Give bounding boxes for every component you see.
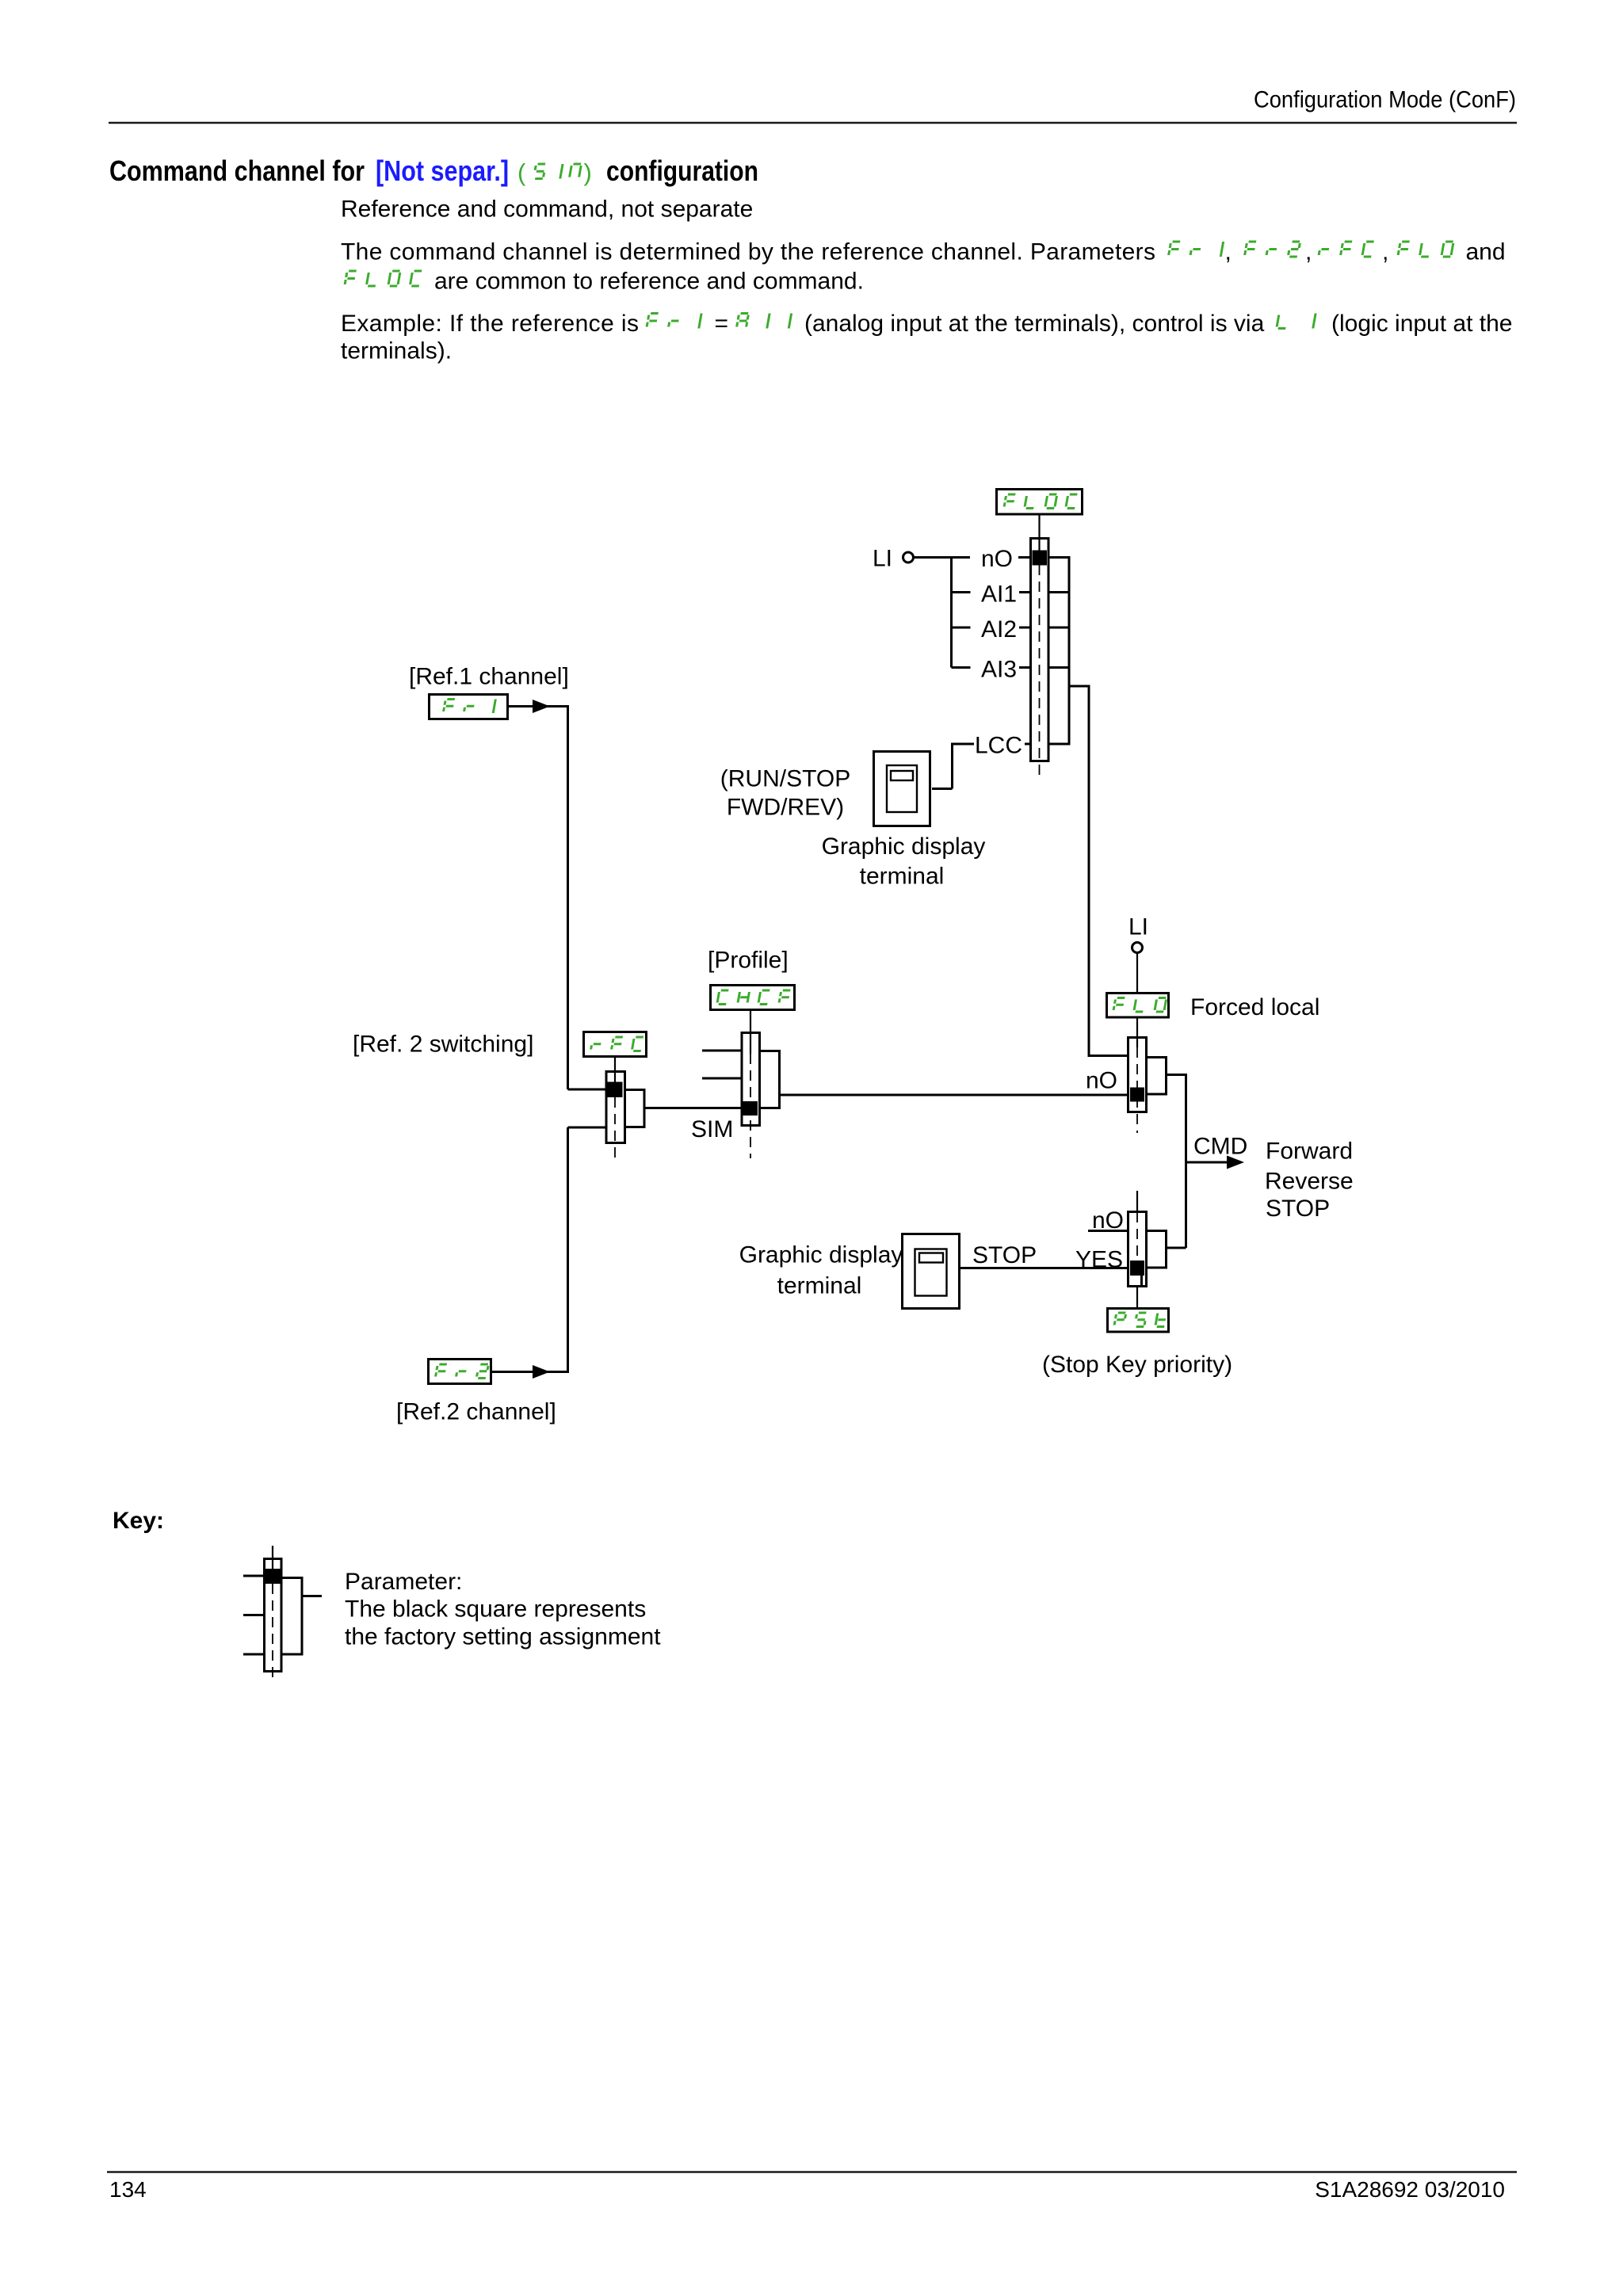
svg-text:Reference and command, not sep: Reference and command, not separate — [341, 196, 753, 223]
wire LCC from terminal — [953, 743, 975, 746]
svg-text:configuration: configuration — [606, 154, 758, 187]
switch rFC dashed axis — [614, 1097, 616, 1161]
parameter box FLOC — [997, 490, 1083, 515]
svg-text:(RUN/STOP: (RUN/STOP — [720, 766, 850, 792]
svg-text:S1A28692 03/2010: S1A28692 03/2010 — [1315, 2177, 1505, 2202]
svg-text:The command channel is determi: The command channel is determined by the… — [341, 239, 1155, 265]
wire Fr2 output with arrow — [491, 1371, 568, 1373]
LI terminal circle — [903, 552, 914, 563]
switch CHCF input stub 2 — [702, 1077, 743, 1080]
connector LCC to selector — [1025, 743, 1030, 746]
svg-text:,: , — [1225, 239, 1232, 265]
switch rFC body — [606, 1072, 625, 1143]
graphic display terminal 1 outer — [874, 752, 930, 826]
parameter box FLO — [1107, 994, 1169, 1018]
wire Fr1 down to rFC — [567, 705, 569, 1089]
parameter box Fr1 — [430, 695, 508, 719]
switch CHCF body — [742, 1033, 760, 1126]
parameter box rFC — [584, 1032, 647, 1057]
inline code Fr1 (example) — [647, 314, 701, 329]
wire FLO box to switch — [1136, 1017, 1138, 1047]
switch FLO dashed axis — [1136, 1047, 1138, 1133]
wire FLOC box to selector — [1038, 515, 1040, 552]
inline code AI1 — [736, 314, 791, 329]
terminal 2 screen — [919, 1253, 943, 1263]
key symbol axis top — [272, 1546, 273, 1570]
PSt nO input stub — [1088, 1230, 1128, 1232]
svg-text:Reverse: Reverse — [1265, 1169, 1354, 1195]
inline code LI — [1277, 314, 1316, 329]
wire CHCF box to switch — [750, 1009, 751, 1054]
switch PSt dashed axis — [1136, 1212, 1138, 1260]
parameter box PSt — [1108, 1309, 1169, 1333]
ladder rung AI2 — [1048, 627, 1069, 629]
stub AI3 — [952, 666, 971, 669]
svg-text:=: = — [715, 311, 729, 337]
terminal 1 inner body — [887, 765, 917, 812]
terminal 2 inner body — [915, 1249, 947, 1296]
stub AI1 — [952, 591, 971, 593]
switch CHCF output tab — [760, 1051, 780, 1108]
svg-text:Command channel for: Command channel for — [109, 154, 365, 187]
ladder rung AI3 — [1048, 666, 1069, 669]
switch CHCF dashed axis — [750, 1054, 751, 1158]
svg-text:AI3: AI3 — [981, 657, 1017, 683]
svg-text:[Ref.1 channel]: [Ref.1 channel] — [409, 664, 569, 690]
svg-text:LI: LI — [1128, 914, 1148, 940]
wire rFC box to switch — [614, 1057, 616, 1083]
selector FLOC dashed axis — [1039, 565, 1041, 779]
svg-text:and: and — [1466, 239, 1506, 265]
switch rFC factory square — [608, 1082, 623, 1098]
inline code FLO — [1398, 242, 1453, 257]
CMD output arrow — [1186, 1161, 1231, 1164]
svg-text:STOP: STOP — [972, 1242, 1037, 1268]
svg-text:Graphic display: Graphic display — [739, 1242, 903, 1268]
graphic display terminal 2 outer — [903, 1234, 960, 1309]
wire LI to FLO box — [1136, 953, 1138, 994]
svg-text:AI2: AI2 — [981, 616, 1017, 643]
wire into PSt output tab — [1167, 1247, 1186, 1249]
title 7-seg code SIM — [533, 164, 581, 179]
svg-text:): ) — [584, 158, 592, 186]
wire LI to nO — [915, 556, 971, 559]
wire Fr2 up to rFC — [567, 1127, 569, 1373]
switch FLO body — [1128, 1038, 1147, 1112]
key symbol dashed axis — [272, 1584, 273, 1682]
selector FLOC right ladder rung nO — [1048, 556, 1069, 559]
switch PSt output tab — [1147, 1231, 1167, 1268]
svg-text:FWD/REV): FWD/REV) — [727, 795, 844, 821]
long wire CHCF output to FLO switch — [780, 1094, 1128, 1097]
svg-text:Example: If the reference is: Example: If the reference is — [341, 311, 639, 337]
wire Fr1 output with arrow — [508, 705, 568, 707]
svg-text:[Ref. 2 switching]: [Ref. 2 switching] — [353, 1032, 533, 1058]
switch CHCF factory square (SIM) — [743, 1101, 758, 1116]
svg-text:[Not separ.]: [Not separ.] — [376, 154, 509, 187]
key symbol factory square — [265, 1569, 281, 1584]
ladder right rail — [1068, 556, 1071, 746]
switch PSt axis above — [1136, 1191, 1138, 1212]
svg-text:The black square represents: The black square represents — [345, 1596, 646, 1623]
switch PSt body — [1128, 1212, 1147, 1287]
svg-text:(: ( — [517, 158, 526, 186]
key symbol input stubs — [243, 1575, 265, 1577]
switch rFC output tab — [625, 1090, 645, 1127]
wire rFC output to CHCF — [644, 1107, 742, 1109]
svg-text:(analog input at the terminals: (analog input at the terminals), control… — [804, 311, 1265, 337]
switch FLO factory square (nO) — [1130, 1088, 1144, 1102]
svg-text:STOP: STOP — [1266, 1196, 1330, 1222]
key symbol output stub — [302, 1595, 322, 1597]
branch rail for AI inputs — [950, 558, 953, 668]
svg-text:terminal: terminal — [860, 864, 945, 890]
header rule — [109, 122, 1517, 124]
ladder rung AI1 — [1048, 591, 1069, 593]
svg-text:LCC: LCC — [975, 733, 1022, 759]
FLOC output wire — [1069, 685, 1089, 688]
ladder rung LCC — [1048, 743, 1069, 746]
wire STOP from terminal 2 — [960, 1267, 1128, 1269]
wire FLO output — [1166, 1074, 1186, 1076]
svg-text:(Stop Key priority): (Stop Key priority) — [1042, 1352, 1232, 1378]
FLO LI terminal circle — [1132, 943, 1143, 953]
switch FLO output tab — [1147, 1058, 1167, 1095]
key symbol body — [265, 1559, 282, 1672]
inline code Fr1 — [1168, 242, 1223, 257]
svg-text:Forced local: Forced local — [1190, 994, 1319, 1020]
selector FLOC factory square (nO) — [1033, 551, 1048, 566]
wire down to CMD and PSt — [1185, 1074, 1187, 1248]
svg-text:AI1: AI1 — [981, 582, 1017, 608]
svg-text:Parameter:: Parameter: — [345, 1569, 462, 1595]
svg-text:SIM: SIM — [691, 1116, 733, 1142]
svg-text:Forward: Forward — [1266, 1138, 1353, 1165]
parameter box CHCF — [711, 986, 795, 1010]
stub AI2 — [952, 627, 971, 629]
svg-text:nO: nO — [1086, 1068, 1117, 1094]
key symbol output tab — [281, 1578, 302, 1655]
svg-text:[Profile]: [Profile] — [708, 948, 789, 974]
svg-text:134: 134 — [109, 2177, 147, 2202]
svg-text:Graphic display: Graphic display — [822, 833, 986, 860]
PSt square wiper — [1140, 1276, 1143, 1286]
svg-text:terminals).: terminals). — [341, 338, 452, 364]
inline code rFC — [1319, 242, 1374, 257]
svg-text:Configuration Mode (ConF): Configuration Mode (ConF) — [1254, 87, 1516, 113]
svg-text:the factory setting assignment: the factory setting assignment — [345, 1624, 661, 1650]
svg-text:(logic input at the: (logic input at the — [1331, 311, 1512, 337]
selector FLOC body — [1031, 539, 1049, 761]
svg-text:[Ref.2 channel]: [Ref.2 channel] — [396, 1399, 556, 1425]
footer rule — [107, 2171, 1517, 2172]
paragraph line 3 inline code FLOC — [345, 271, 422, 286]
svg-text:CMD: CMD — [1193, 1134, 1247, 1160]
svg-text:nO: nO — [981, 546, 1013, 572]
svg-text:LI: LI — [873, 546, 892, 572]
svg-text:,: , — [1305, 239, 1312, 265]
svg-text:,: , — [1382, 239, 1388, 265]
wire PSt switch to PSt box — [1136, 1287, 1138, 1308]
terminal 1 screen — [891, 771, 913, 780]
svg-text:Key:: Key: — [113, 1508, 164, 1534]
svg-text:terminal: terminal — [777, 1273, 862, 1299]
switch PSt factory square (YES) — [1130, 1261, 1144, 1276]
inline code Fr2 — [1244, 242, 1300, 257]
svg-text:are common to reference and co: are common to reference and command. — [434, 269, 864, 295]
switch CHCF input stub 1 — [702, 1050, 743, 1052]
connector nO to selector — [1018, 556, 1030, 559]
parameter box Fr2 — [429, 1360, 491, 1384]
